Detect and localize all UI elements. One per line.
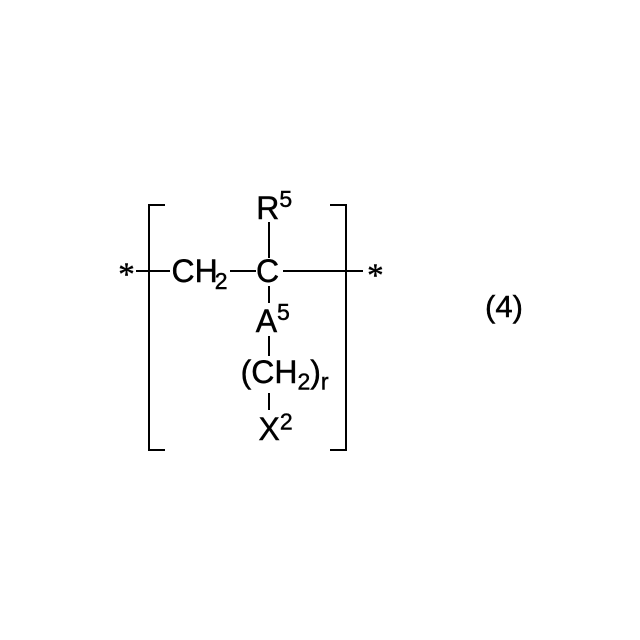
wire bond CH2 to C	[230, 270, 255, 272]
group label (CH2)r	[241, 356, 329, 388]
atom label CH2	[172, 255, 228, 287]
right bracket	[345, 204, 347, 451]
wire bond R5 to C	[268, 222, 270, 258]
asterisk right end group	[367, 260, 384, 293]
asterisk left end group	[118, 259, 135, 292]
wire bond C to asterisk-right	[283, 270, 364, 272]
substituent label X2	[259, 413, 293, 445]
substituent label A5	[256, 305, 290, 337]
atom label C (backbone carbon)	[256, 255, 279, 287]
left bracket	[148, 204, 150, 451]
substituent label R5	[256, 192, 292, 224]
wire bond C to A5	[268, 286, 270, 303]
wire bond asterisk-left to CH2	[136, 270, 170, 272]
wire bond (CH2)r to X2	[268, 393, 270, 410]
wire bond A5 to (CH2)r	[268, 336, 270, 356]
formula number (4)	[485, 291, 523, 322]
